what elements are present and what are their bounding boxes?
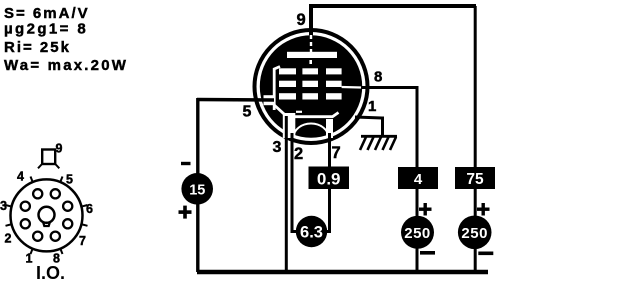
ground symbol	[360, 136, 397, 150]
wire pin9 anode to HT supply (top)	[311, 6, 476, 167]
socket center spigot with key	[39, 207, 55, 226]
box 75 (anode current)	[455, 167, 495, 189]
wire pin7 heater down through 0.9 to 6.3 supply	[327, 133, 330, 232]
svg-text:4: 4	[17, 170, 24, 184]
svg-text:250: 250	[404, 225, 431, 242]
wire anode supply to bus	[474, 249, 477, 272]
socket top cap symbol	[38, 150, 59, 169]
svg-text:I.O.: I.O.	[36, 263, 65, 281]
meter circle 15	[181, 173, 213, 205]
g3 lead dash below anode	[309, 60, 312, 64]
svg-text:Wa= max.20W: Wa= max.20W	[4, 57, 128, 74]
white halo around pins 3 and 2 inside tube	[283, 113, 296, 138]
svg-text:5: 5	[243, 104, 252, 121]
svg-text:15: 15	[189, 182, 205, 198]
anode lead dashed line inside tube	[310, 35, 312, 52]
svg-text:6: 6	[86, 202, 93, 216]
grid row 3 (g1)	[279, 93, 342, 99]
wire box 4 to screen supply	[416, 189, 419, 218]
white halo around pin 7 inside tube	[326, 119, 333, 138]
bottom bus wire	[197, 270, 488, 274]
tube V1 envelope outer circle	[255, 30, 368, 143]
minus sign above meter 15	[181, 162, 191, 165]
plus sign below meter 15	[179, 206, 192, 219]
wire box 75 to anode supply	[474, 189, 477, 218]
cathode	[274, 105, 338, 117]
svg-text:9: 9	[56, 142, 63, 156]
wire pin3 cathode to bus	[285, 116, 288, 272]
grid side rod bracket (pin 5 connection)	[274, 67, 280, 111]
svg-text:250: 250	[461, 225, 488, 242]
minus sign below anode supply	[478, 252, 493, 256]
svg-text:5: 5	[66, 173, 73, 187]
svg-text:Ri= 25k: Ri= 25k	[4, 39, 71, 56]
box 4 (screen current)	[398, 167, 438, 189]
svg-text:0.9: 0.9	[317, 170, 341, 189]
wire pin1 to ground	[355, 117, 383, 136]
heater dome	[294, 124, 329, 138]
wire pin5 from grid to left branch	[197, 98, 274, 102]
svg-text:75: 75	[466, 171, 484, 188]
socket base outline circle	[11, 179, 83, 251]
wire left branch vertical (pin5 down to bus)	[196, 98, 199, 272]
svg-text:2: 2	[5, 232, 12, 246]
supply circle 250 (screen)	[401, 216, 434, 249]
wire pin8 to right branch	[362, 88, 417, 168]
pin5 wire white halo inside tube	[264, 95, 275, 105]
anode plate	[287, 52, 337, 58]
g2 lead to pin 8 (white gap line)	[342, 86, 361, 89]
plus sign above screen supply	[419, 203, 432, 216]
svg-text:1: 1	[368, 98, 376, 115]
svg-text:3: 3	[0, 199, 7, 213]
socket rim tick marks	[6, 177, 88, 255]
tube V1 inner black disk	[260, 35, 362, 137]
svg-text:8: 8	[374, 69, 382, 86]
svg-text:1: 1	[26, 252, 33, 266]
grid row 1 (g3)	[279, 68, 342, 74]
svg-text:9: 9	[297, 11, 306, 29]
svg-text:3: 3	[273, 139, 282, 156]
grid row 2 (g2)	[279, 81, 342, 87]
socket pin holes 1-8	[21, 189, 73, 241]
minus sign below screen supply	[420, 251, 435, 255]
wire pin2 heater to 6.3 supply	[292, 133, 297, 232]
plus sign above anode supply	[477, 203, 490, 216]
svg-text:S= 6mA/V: S= 6mA/V	[4, 5, 90, 22]
wire screen supply to bus	[416, 248, 419, 272]
svg-text:7: 7	[79, 234, 86, 248]
svg-text:2: 2	[294, 145, 303, 163]
svg-text:7: 7	[332, 144, 341, 162]
supply circle 6.3 (heater voltage)	[296, 216, 327, 247]
svg-text:6.3: 6.3	[300, 224, 323, 242]
svg-text:4: 4	[414, 171, 423, 188]
supply circle 250 (anode)	[458, 216, 492, 250]
svg-text:µg2g1= 8: µg2g1= 8	[4, 21, 88, 38]
box 0.9 (heater current)	[309, 167, 350, 190]
